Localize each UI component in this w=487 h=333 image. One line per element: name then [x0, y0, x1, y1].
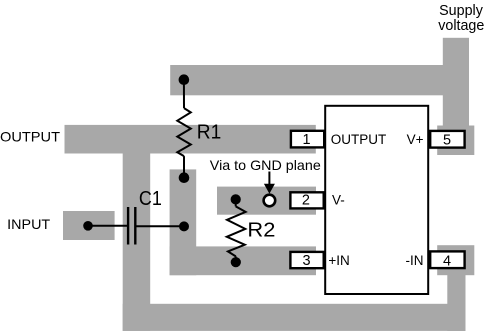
svg-text:Supply: Supply	[439, 3, 484, 19]
svg-text:+IN: +IN	[328, 253, 349, 268]
node: junction dot on supply trace	[179, 74, 190, 85]
wire: R2 top lead	[235, 199, 237, 206]
pin 1 box	[291, 131, 324, 148]
wire: +IN trace to pin 3	[170, 246, 316, 275]
wire: top supply trace (horizontal)	[170, 65, 443, 95]
pin 4 box	[430, 251, 464, 268]
svg-text:-IN: -IN	[406, 253, 424, 268]
wire: +IN node vertical trace	[170, 169, 197, 275]
pin 2 box	[290, 192, 323, 208]
svg-text:5: 5	[443, 132, 451, 148]
wire: -IN pin 4 pad	[437, 245, 474, 275]
resistor R2 zigzag	[227, 206, 246, 256]
capacitor C1 left plate	[127, 207, 129, 245]
wire: feedback riser to pin 4	[447, 275, 465, 331]
svg-text:OUTPUT: OUTPUT	[0, 129, 60, 145]
resistor R1 zigzag	[177, 108, 191, 156]
op-amp U1 body	[325, 106, 428, 294]
wire: R1 top lead	[183, 80, 185, 108]
node: R2 bottom terminal dot	[231, 257, 241, 267]
capacitor C1 right plate	[134, 207, 136, 245]
pin 5 box	[430, 131, 464, 148]
wire: input to C1	[88, 225, 128, 227]
node: input terminal dot	[83, 221, 93, 231]
node: R1 bottom terminal dot	[179, 172, 190, 183]
wire: feedback bottom trace	[123, 304, 466, 331]
wire: supply voltage vertical trace	[443, 38, 469, 155]
svg-text:OUTPUT: OUTPUT	[331, 132, 387, 147]
svg-text:4: 4	[443, 253, 451, 269]
pin 3 box	[290, 252, 323, 268]
wire: feedback vertical trace (left)	[123, 154, 151, 331]
svg-text:3: 3	[303, 253, 311, 269]
node: R2 top terminal dot	[231, 194, 241, 204]
svg-text:V+: V+	[407, 132, 424, 147]
svg-text:voltage: voltage	[438, 18, 484, 34]
wire: C1 to +IN node	[135, 225, 184, 227]
wire: R1 bottom lead	[183, 156, 185, 178]
arrow to via	[268, 172, 270, 186]
node: C1 right terminal dot	[179, 221, 189, 231]
svg-text:Via to GND plane: Via to GND plane	[210, 157, 321, 173]
wire: INPUT pad	[63, 211, 115, 240]
svg-text:C1: C1	[139, 188, 162, 210]
svg-text:R2: R2	[247, 220, 275, 242]
wire: V- ground trace to pin 2	[217, 187, 316, 215]
svg-text:INPUT: INPUT	[7, 217, 50, 232]
svg-text:V-: V-	[332, 193, 345, 208]
wire: R2 bottom lead	[235, 256, 237, 262]
wire: V+ pin 5 pad	[437, 126, 474, 156]
via to GND plane (circle)	[264, 195, 276, 207]
wire: OUTPUT trace to pin 1	[65, 125, 316, 154]
svg-text:2: 2	[302, 193, 310, 209]
svg-text:1: 1	[302, 132, 310, 148]
svg-text:R1: R1	[197, 122, 222, 144]
